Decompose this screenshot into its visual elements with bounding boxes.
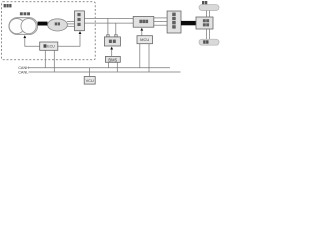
battery terminal right (115, 35, 118, 37)
wire RECU to engine with arrow (25, 38, 40, 46)
dashed box range-extender boundary (1, 2, 95, 60)
arrow into inverter (140, 28, 143, 31)
wire 3-phase generator to rectifier (67, 21, 75, 26)
final drive box 主减速器 (196, 17, 213, 29)
svg-text:MCU: MCU (140, 37, 149, 42)
svg-text:VCU: VCU (86, 78, 94, 83)
arrow into battery (110, 47, 113, 50)
arrow into rectifier (79, 31, 82, 34)
wire MCU to CANH (139, 44, 141, 68)
wire MCU to inverter with arrow (141, 31, 143, 36)
rectifier box 整流器 (75, 11, 85, 31)
wheel top (199, 5, 219, 11)
wire 3-phase inverter to motor (154, 18, 167, 25)
wire CANL bus (29, 71, 181, 73)
label 车轮 bottom (203, 40, 208, 43)
label 车轮 top (202, 1, 207, 4)
engine cylinder left (9, 19, 24, 34)
axle top double line (205, 11, 207, 18)
wire BMS to CANL (116, 62, 118, 72)
wire RECU to CANH (44, 50, 46, 67)
generator ellipse (48, 19, 68, 31)
wire VCU to CAN (89, 68, 91, 77)
wheel bottom (199, 39, 219, 45)
wire BMS to CANH (108, 62, 110, 67)
wire DC bus + (84, 17, 133, 19)
wire RECU to rectifier with arrow (58, 34, 80, 46)
wire CANH bus (29, 67, 171, 69)
wire MCU to CANL (148, 44, 150, 72)
motor box 驱动电机 (167, 11, 181, 33)
VCU box (84, 77, 95, 85)
battery box 电池 (104, 37, 120, 46)
inverter box 逆变器 (133, 17, 154, 28)
BMS box (105, 56, 120, 62)
label 增程器 (4, 4, 12, 7)
wire DC bus - (84, 22, 133, 24)
wire battery terminal drops (107, 18, 109, 35)
generator label 发电机 (55, 22, 60, 25)
shaft motor-gearbox (181, 21, 196, 25)
svg-text:ECU: ECU (47, 45, 55, 49)
RECU box (40, 42, 58, 50)
battery terminal left (107, 35, 110, 37)
wire BMS to battery with arrow (111, 49, 113, 56)
wire RECU to CANL (53, 50, 55, 72)
svg-text:BMS: BMS (108, 57, 117, 62)
shaft engine-generator (38, 22, 48, 26)
engine body (9, 18, 38, 35)
engine cylinder right (21, 19, 36, 34)
arrow into engine (23, 35, 26, 38)
label 发动机 (20, 12, 30, 15)
axle bottom double line (205, 29, 207, 39)
MCU box (137, 36, 153, 44)
svg-text:CANL: CANL (18, 71, 28, 75)
